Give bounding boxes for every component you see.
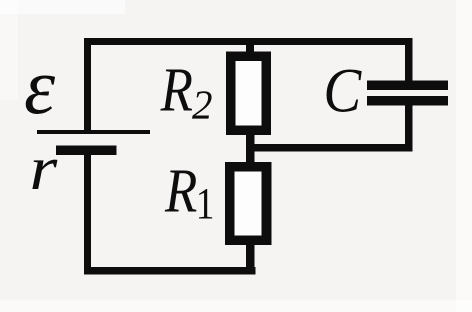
svg-text:ε: ε [24, 44, 56, 131]
wire top horizontal [84, 38, 412, 45]
resistor R2 inner window [236, 61, 262, 126]
svg-text:R: R [160, 54, 193, 124]
svg-text:1: 1 [196, 179, 215, 227]
resistor R1 inner window [235, 172, 262, 236]
wire left vertical lower (battery bottom lead) [84, 155, 91, 274]
svg-text:R: R [164, 155, 197, 225]
wire stub R1 bottom to bottom wire [246, 240, 255, 274]
wire stub R2 bottom to R1 top (junction node) [246, 130, 255, 166]
resistor R1 body [225, 162, 272, 245]
battery E1 plate long (positive) [37, 130, 150, 134]
battery E1 plate short (negative) [56, 146, 117, 156]
svg-text:C: C [323, 56, 362, 125]
wire left vertical upper (battery top lead) [84, 38, 91, 130]
capacitor C plate top [367, 81, 448, 91]
svg-text:r: r [30, 134, 59, 203]
wire stub top wire to R2 top [246, 45, 254, 55]
svg-text:2: 2 [192, 81, 213, 127]
capacitor C plate bottom [367, 96, 448, 106]
wire middle horizontal (junction to capacitor branch) [250, 144, 413, 152]
resistor R2 body [226, 52, 271, 136]
wire bottom horizontal [84, 267, 256, 275]
wire right vertical lower (capacitor to middle wire) [405, 105, 413, 152]
wire right vertical upper (top wire to capacitor) [405, 38, 413, 81]
